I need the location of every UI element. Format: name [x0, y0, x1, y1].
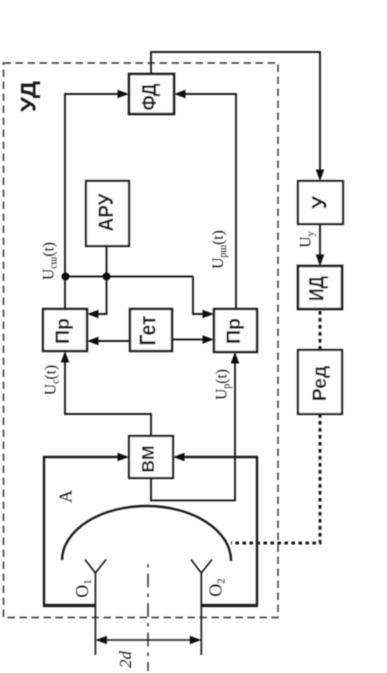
svg-text:Пр: Пр — [52, 318, 74, 344]
svg-text:У: У — [309, 195, 332, 209]
svg-text:Uс(t): Uс(t) — [42, 365, 61, 395]
svg-text:ИД: ИД — [306, 276, 329, 301]
svg-text:УД: УД — [18, 81, 41, 112]
svg-text:ФД: ФД — [139, 84, 161, 111]
svg-text:АРУ: АРУ — [95, 193, 118, 232]
svg-text:Гет: Гет — [134, 316, 160, 346]
svg-text:А: А — [56, 490, 76, 503]
svg-text:Uр(t): Uр(t) — [213, 369, 232, 400]
svg-text:ВМ: ВМ — [138, 445, 158, 472]
svg-text:Пр: Пр — [223, 318, 245, 344]
svg-text:2d: 2d — [116, 651, 135, 669]
svg-text:Ред: Ред — [309, 365, 331, 401]
